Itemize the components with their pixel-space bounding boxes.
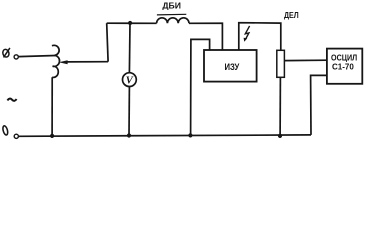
voltmeter PV1 <box>122 73 136 87</box>
wire divider lower lead <box>279 77 281 136</box>
label ДБИ underline <box>157 13 186 16</box>
wire top phase bus <box>107 22 157 24</box>
wire neutral to IZU step riser <box>191 39 210 135</box>
svg-text:С1-70: С1-70 <box>332 62 354 72</box>
block U1 ИЗУ box <box>204 50 257 82</box>
junction divider-neutral <box>278 134 282 138</box>
wire top bus right of L1 <box>189 23 222 50</box>
junction step-neutral <box>188 133 192 137</box>
node 0 (neutral terminal label) <box>2 125 8 135</box>
divider R1 (ДЕЛ) box <box>277 50 285 77</box>
symbol ~ (AC mains) <box>7 99 16 101</box>
wire voltmeter lower lead <box>128 87 130 136</box>
terminal 0 circle <box>14 134 18 138</box>
wire wiper riser <box>107 23 108 62</box>
wire neutral riser to oscilloscope <box>311 75 327 134</box>
terminal Ф circle <box>14 55 18 59</box>
svg-text:ИЗУ: ИЗУ <box>225 62 240 72</box>
symbol lightning bolt (HV pulse) <box>245 26 249 39</box>
junction voltmeter tap <box>128 21 132 25</box>
wire T1 bottom lead <box>51 77 53 136</box>
svg-text:V: V <box>126 76 134 87</box>
wiper arrow of T1 <box>59 60 68 64</box>
junction T1-neutral <box>50 134 54 138</box>
wire IZU high-voltage output to divider <box>239 23 281 51</box>
svg-text:ДЕЛ: ДЕЛ <box>284 10 299 20</box>
block P1 oscilloscope box <box>327 49 362 84</box>
wire voltmeter upper lead <box>128 23 131 73</box>
wire divider to oscilloscope <box>284 59 327 61</box>
wire wiper horizontal <box>67 61 109 63</box>
wire neutral bus <box>19 135 311 136</box>
junction voltmeter-neutral <box>127 133 131 137</box>
wire Ф terminal to autotransformer T1 <box>19 56 56 57</box>
autotransformer T1 winding <box>52 45 60 77</box>
inductor L1 (ДБИ ballast) <box>157 18 189 24</box>
svg-text:ДБИ: ДБИ <box>162 1 181 11</box>
node Ф (phase terminal label) <box>2 48 10 58</box>
